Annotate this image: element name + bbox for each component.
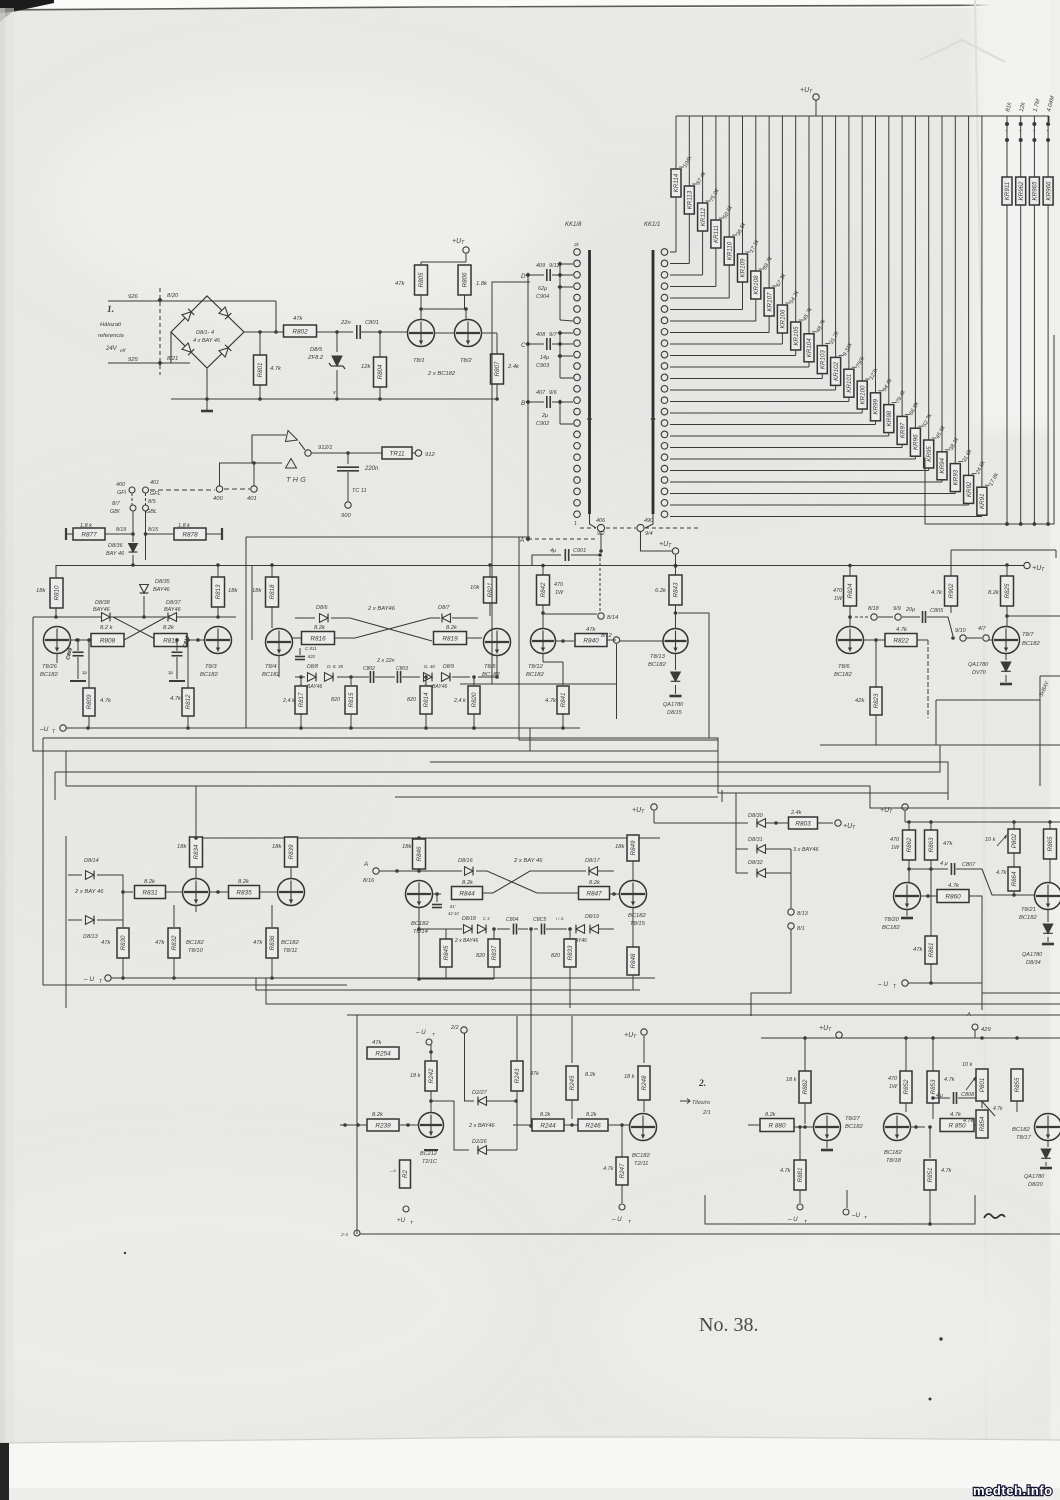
svg-text:62μ: 62μ bbox=[538, 286, 547, 292]
svg-text:4.7k: 4.7k bbox=[948, 883, 960, 889]
wire 8/20 line bbox=[108, 300, 276, 302]
wire wrap bus C bbox=[43, 738, 347, 985]
svg-text:BAY 46: BAY 46 bbox=[106, 551, 125, 557]
resistor R841 bbox=[562, 662, 564, 685]
wire R806 base rail bbox=[421, 308, 466, 310]
svg-text:8.2k: 8.2k bbox=[540, 1112, 551, 1118]
svg-text:2-3: 2-3 bbox=[340, 1232, 348, 1238]
transistor T8/11 bbox=[278, 879, 305, 906]
transistor T8/2 bbox=[455, 320, 482, 347]
svg-text:4.7k: 4.7k bbox=[545, 698, 557, 704]
wire wrap bus B bbox=[529, 728, 531, 751]
connector strip KK1/1 bar bbox=[652, 250, 655, 514]
capacitor C801 22n bbox=[356, 325, 358, 339]
svg-text:GBI: GBI bbox=[110, 509, 120, 515]
svg-text:2.: 2. bbox=[698, 1079, 706, 1089]
svg-text:– U: – U bbox=[415, 1029, 426, 1036]
svg-text:47k: 47k bbox=[586, 627, 596, 633]
svg-text:KR94: KR94 bbox=[939, 458, 946, 474]
node 401 switch side bbox=[251, 486, 257, 492]
svg-text:KR106: KR106 bbox=[780, 309, 787, 328]
resistor R863 bbox=[930, 822, 932, 831]
svg-text:R842: R842 bbox=[540, 582, 547, 597]
capacitor C811 bbox=[299, 648, 301, 655]
svg-text:9/10: 9/10 bbox=[955, 628, 967, 634]
svg-text:KR96: KR96 bbox=[913, 434, 920, 450]
wire -UT rail row2 right bbox=[908, 982, 982, 984]
resistor R808 bbox=[70, 639, 91, 641]
svg-text:4.7k: 4.7k bbox=[944, 1077, 955, 1083]
svg-text:3μ: 3μ bbox=[168, 670, 174, 675]
resistor R816 bbox=[292, 637, 301, 639]
resistor R818 18k bbox=[271, 565, 273, 578]
svg-text:T2/11: T2/11 bbox=[634, 1161, 648, 1167]
transistor T8/20 bbox=[894, 883, 921, 910]
wire B node column stub bbox=[559, 402, 561, 424]
resistor R834 18k bbox=[190, 837, 203, 867]
svg-text:47k: 47k bbox=[372, 1040, 382, 1046]
svg-text:8/1: 8/1 bbox=[797, 926, 805, 932]
svg-text:14μ: 14μ bbox=[540, 355, 549, 361]
svg-text:T8/6: T8/6 bbox=[838, 664, 850, 670]
wire 406 drop to C901 bbox=[600, 532, 602, 551]
wire wrap bus 797 bbox=[395, 796, 718, 798]
svg-text:D8/16: D8/16 bbox=[458, 858, 474, 864]
capacitor C809 bbox=[76, 638, 80, 642]
resistor R821 10k bbox=[489, 565, 491, 578]
resistor R882 18k bbox=[804, 1038, 806, 1071]
svg-text:D8/8: D8/8 bbox=[307, 664, 318, 670]
svg-text:18k: 18k bbox=[615, 844, 625, 850]
transistor T8/1 bbox=[408, 320, 435, 347]
svg-text:C903: C903 bbox=[536, 363, 550, 369]
thyristor QA1780 D8/15 bbox=[675, 654, 677, 670]
svg-text:400: 400 bbox=[213, 496, 223, 502]
resistor R245 bbox=[571, 1016, 573, 1063]
node 4/7 bbox=[966, 637, 982, 639]
svg-text:R834: R834 bbox=[193, 844, 200, 859]
node 406 9/2 bbox=[590, 514, 597, 528]
svg-text:R804: R804 bbox=[377, 364, 384, 379]
svg-text:47k: 47k bbox=[530, 1071, 539, 1077]
transistor T8/10 bbox=[183, 879, 210, 906]
svg-text:B: B bbox=[521, 400, 525, 407]
resistor R877 bbox=[65, 528, 67, 540]
svg-text:BAY46: BAY46 bbox=[164, 607, 182, 613]
svg-text:D8/36: D8/36 bbox=[108, 543, 124, 549]
svg-text:4.7k: 4.7k bbox=[896, 627, 908, 633]
svg-text:8.2k: 8.2k bbox=[314, 625, 326, 631]
resistor R248 bbox=[638, 1066, 650, 1100]
svg-text:R831: R831 bbox=[142, 889, 158, 896]
wire dashed 406-490 row bbox=[580, 527, 596, 529]
svg-text:R851: R851 bbox=[927, 1168, 934, 1183]
capacitor T8/14 side bbox=[436, 894, 438, 902]
svg-text:TC 11: TC 11 bbox=[352, 488, 367, 494]
svg-text:T H G: T H G bbox=[286, 475, 306, 484]
resistor R861 bbox=[925, 936, 937, 964]
svg-text:10k: 10k bbox=[470, 585, 480, 591]
svg-text:T8/13: T8/13 bbox=[650, 654, 666, 660]
svg-text:T8/12: T8/12 bbox=[528, 664, 544, 670]
svg-text:→x: →x bbox=[389, 1168, 397, 1173]
capacitor C805 20u bbox=[902, 616, 920, 618]
svg-text:KR93: KR93 bbox=[953, 469, 960, 485]
svg-text:8.2k: 8.2k bbox=[585, 1072, 596, 1078]
svg-text:2,4 k: 2,4 k bbox=[282, 698, 295, 704]
svg-text:D8/7: D8/7 bbox=[438, 605, 451, 611]
wire bridge output to R802 bbox=[244, 331, 284, 333]
svg-text:3μ: 3μ bbox=[82, 670, 88, 675]
svg-text:408: 408 bbox=[536, 332, 546, 338]
resistor R855 bbox=[1011, 1069, 1023, 1101]
svg-text:KR105: KR105 bbox=[793, 326, 800, 345]
node 8/13 bbox=[788, 909, 794, 915]
resistor R844 row2 bbox=[433, 893, 441, 895]
svg-text:406: 406 bbox=[596, 518, 606, 524]
svg-text:D8/9: D8/9 bbox=[443, 664, 454, 670]
svg-text:D8/20: D8/20 bbox=[1028, 1182, 1044, 1188]
svg-text:D8/6: D8/6 bbox=[316, 605, 329, 611]
node +UT reference supply bbox=[463, 247, 469, 253]
svg-text:470: 470 bbox=[833, 588, 842, 594]
svg-text:2 x BAY46: 2 x BAY46 bbox=[454, 938, 478, 944]
resistor KR113 with ladder wire bbox=[688, 116, 690, 186]
wire T8/2 collector to R807 bbox=[482, 332, 497, 334]
wire 8/21 to bridge left bbox=[171, 332, 190, 363]
resistor KR101 with ladder wire bbox=[848, 116, 850, 369]
resistor R848 bbox=[632, 907, 634, 947]
switch blade 912/1 bbox=[299, 442, 305, 450]
svg-text:D: D bbox=[521, 273, 526, 280]
resistor R806 bbox=[458, 265, 471, 295]
svg-text:926: 926 bbox=[128, 294, 138, 300]
svg-text:R808: R808 bbox=[100, 637, 116, 644]
svg-text:No. 38.: No. 38. bbox=[699, 1314, 758, 1336]
resistor KR96 with ladder wire bbox=[914, 116, 916, 428]
svg-text:4/7: 4/7 bbox=[978, 626, 987, 632]
svg-text:8.2k: 8.2k bbox=[988, 590, 1000, 596]
resistor R881 bbox=[799, 1127, 801, 1160]
svg-text:R852: R852 bbox=[903, 1079, 910, 1094]
svg-text:4 μ: 4 μ bbox=[940, 861, 948, 867]
resistor KR105 with ladder wire bbox=[795, 116, 797, 322]
svg-text:KR99: KR99 bbox=[873, 399, 880, 415]
wire T8/14 emitter to rail bbox=[418, 929, 420, 979]
wire wrap bus G right bbox=[721, 790, 723, 802]
svg-text:18k: 18k bbox=[177, 844, 187, 850]
top-left black scan corner bbox=[0, 0, 54, 13]
wire diode outputs to R831 bbox=[97, 875, 133, 892]
svg-text:2 x 22n: 2 x 22n bbox=[376, 658, 395, 664]
connector KK1/1 pin circles bbox=[661, 249, 668, 256]
svg-text:KR108: KR108 bbox=[753, 275, 760, 294]
svg-text:1W: 1W bbox=[891, 845, 900, 851]
svg-text:R837: R837 bbox=[491, 945, 498, 960]
node +UT ladder supply bbox=[813, 94, 819, 100]
wire R822 to switch node bbox=[917, 639, 928, 641]
svg-text:R846: R846 bbox=[416, 846, 423, 861]
resistor R812 bbox=[187, 640, 189, 690]
svg-text:ZF8.2: ZF8.2 bbox=[307, 355, 324, 361]
svg-text:BC182: BC182 bbox=[628, 913, 647, 919]
wire R880 to T8/27 bbox=[794, 1126, 813, 1128]
svg-text:2 x BAY46: 2 x BAY46 bbox=[367, 606, 396, 612]
svg-text:22n: 22n bbox=[340, 320, 351, 326]
svg-text:P801: P801 bbox=[979, 1078, 986, 1092]
svg-text:D8/1- 4: D8/1- 4 bbox=[196, 330, 214, 336]
node +UT D830 bbox=[651, 804, 657, 810]
svg-text:8.2k: 8.2k bbox=[462, 880, 474, 886]
node +UT bottom left bbox=[403, 1206, 409, 1212]
svg-text:42k: 42k bbox=[855, 698, 865, 704]
node 400 switch side bbox=[216, 486, 222, 492]
capacitor C807 bbox=[907, 867, 911, 871]
svg-text:8/14: 8/14 bbox=[607, 615, 618, 621]
svg-text:R809: R809 bbox=[86, 694, 93, 709]
svg-text:ı ı 4.: ı ı 4. bbox=[556, 916, 564, 921]
node 8/1 bbox=[788, 923, 794, 929]
svg-text:R812: R812 bbox=[185, 694, 192, 709]
wire wrap bus D bbox=[55, 745, 1060, 772]
svg-text:R844: R844 bbox=[459, 890, 475, 897]
svg-text:BC182: BC182 bbox=[882, 925, 901, 931]
wire T8/14 emitter chain bbox=[418, 907, 420, 929]
capacitor C904 bbox=[528, 274, 544, 276]
transistor T8/13 bbox=[663, 629, 688, 654]
svg-text:2 x BC182: 2 x BC182 bbox=[427, 371, 456, 377]
svg-text:T8/20: T8/20 bbox=[884, 917, 900, 923]
thyristor QA1780 D8/34 bbox=[1047, 909, 1049, 922]
transistor T8/27 bbox=[814, 1114, 841, 1141]
thyristor QA1780 DV70 bbox=[1005, 653, 1007, 660]
svg-text:R2: R2 bbox=[402, 1169, 409, 1177]
resistor R837 bbox=[493, 929, 495, 939]
svg-text:R862: R862 bbox=[906, 837, 913, 852]
resistor R860 bbox=[920, 895, 937, 897]
svg-text:912: 912 bbox=[425, 452, 435, 458]
wire R835 to T8/11 bbox=[260, 891, 277, 893]
svg-text:T8/4: T8/4 bbox=[265, 664, 277, 670]
svg-text:R802: R802 bbox=[292, 328, 308, 335]
svg-text:KR103: KR103 bbox=[820, 350, 827, 369]
svg-text:R825: R825 bbox=[1004, 583, 1011, 598]
svg-text:BC182: BC182 bbox=[281, 940, 300, 946]
svg-text:D8/13: D8/13 bbox=[83, 934, 99, 940]
wire D8/30-32 common left bbox=[735, 823, 737, 873]
svg-text:TR11: TR11 bbox=[389, 450, 405, 457]
wire R902 top feed bbox=[951, 549, 1056, 551]
svg-text:R254: R254 bbox=[375, 1050, 391, 1057]
svg-text:R841: R841 bbox=[560, 693, 567, 708]
svg-text:R819: R819 bbox=[442, 635, 458, 642]
svg-text:eff: eff bbox=[120, 348, 126, 354]
svg-text:R243: R243 bbox=[514, 1068, 521, 1083]
svg-text:9/6: 9/6 bbox=[549, 390, 558, 396]
handwriting squiggle bbox=[984, 1214, 1005, 1218]
resistor R847 bbox=[579, 887, 610, 900]
svg-text:KK1/8: KK1/8 bbox=[565, 222, 582, 228]
resistor R822 bbox=[885, 634, 917, 647]
wire to T8/7 bbox=[989, 639, 993, 641]
svg-text:4.7k: 4.7k bbox=[993, 1106, 1003, 1112]
transistor T8/4 bbox=[266, 629, 293, 656]
svg-text:KR104: KR104 bbox=[806, 338, 813, 357]
svg-text:–U: –U bbox=[39, 726, 49, 733]
node +UT T820 bbox=[902, 804, 908, 810]
capacitor C810 bbox=[175, 638, 179, 642]
wire D node column stubs bbox=[559, 264, 561, 320]
svg-text:KR113: KR113 bbox=[687, 190, 694, 209]
resistor R862 470 1W bbox=[908, 822, 910, 831]
svg-text:R805: R805 bbox=[418, 272, 425, 287]
resistor KR109 with ladder wire bbox=[742, 116, 744, 254]
svg-text:1.8k: 1.8k bbox=[476, 281, 488, 287]
wire D831 D832 to 8/13 column bbox=[790, 849, 792, 908]
svg-text:Hálozati: Hálozati bbox=[100, 322, 122, 328]
svg-text:R817: R817 bbox=[298, 692, 305, 707]
resistor R815 bbox=[350, 677, 352, 685]
svg-text:400: 400 bbox=[116, 482, 126, 488]
wire R242 to T2/1C and D2/26 bbox=[430, 1091, 432, 1112]
svg-text:R877: R877 bbox=[81, 531, 97, 538]
wire 8/12 column down bbox=[616, 644, 618, 719]
wire R843 node east down bbox=[678, 613, 709, 738]
resistor R839 18k bbox=[285, 837, 298, 867]
svg-text:4.7k: 4.7k bbox=[950, 1112, 962, 1118]
svg-text:D8/38: D8/38 bbox=[95, 600, 111, 606]
wire dashed GFL link bbox=[150, 489, 215, 491]
svg-text:820: 820 bbox=[407, 697, 416, 703]
wire row2 bottom links bbox=[419, 978, 494, 980]
svg-text:R848: R848 bbox=[630, 953, 637, 968]
wire lower contact with triangle bbox=[219, 462, 282, 464]
resistor R244 bbox=[532, 1119, 564, 1131]
svg-text:+U: +U bbox=[397, 1217, 406, 1224]
svg-text:KR100: KR100 bbox=[859, 385, 866, 404]
svg-text:T8/21: T8/21 bbox=[1021, 907, 1036, 913]
transistor T8/14 bbox=[406, 881, 433, 908]
svg-text:+UT: +UT bbox=[880, 807, 893, 815]
node +UT row1 middle supply bbox=[672, 548, 678, 554]
svg-text:8/12: 8/12 bbox=[601, 633, 612, 639]
svg-text:8/18: 8/18 bbox=[868, 606, 880, 612]
node -UT under R881 bbox=[797, 1204, 803, 1210]
svg-text:10 k: 10 k bbox=[985, 837, 996, 843]
svg-text:R882: R882 bbox=[802, 1079, 809, 1094]
resistor TR11 bbox=[382, 447, 412, 459]
zener diode D8/5 ZF8.2 bbox=[336, 332, 338, 352]
svg-text:R822: R822 bbox=[893, 637, 909, 644]
svg-text:BC182: BC182 bbox=[648, 662, 667, 668]
resistor KR102 with ladder wire bbox=[835, 116, 837, 357]
svg-text:D8/17: D8/17 bbox=[585, 858, 601, 864]
svg-text:4μ: 4μ bbox=[550, 548, 556, 554]
resistor R846 18k bbox=[418, 838, 420, 840]
svg-text:KR966: KR966 bbox=[1045, 181, 1052, 200]
resistor R902 bbox=[945, 576, 958, 606]
svg-text:4.7k: 4.7k bbox=[996, 870, 1007, 876]
wire mid cell emitters bbox=[278, 655, 280, 677]
svg-text:42·10: 42·10 bbox=[448, 911, 459, 916]
wire T8/10 to R835 bbox=[210, 891, 228, 893]
svg-text:C: C bbox=[521, 342, 526, 349]
svg-text:925: 925 bbox=[128, 357, 138, 363]
svg-text:R242: R242 bbox=[428, 1068, 435, 1083]
svg-text:A: A bbox=[519, 537, 524, 544]
svg-text:81': 81' bbox=[450, 904, 456, 909]
node 900 bbox=[345, 502, 351, 508]
svg-text:409: 409 bbox=[536, 263, 545, 269]
svg-text:R854: R854 bbox=[979, 1116, 986, 1131]
resistor R813 18k bbox=[217, 565, 219, 577]
svg-text:24V: 24V bbox=[105, 346, 118, 352]
node center cap junction bbox=[518, 928, 528, 930]
svg-text:9/4: 9/4 bbox=[645, 531, 653, 537]
svg-text:470: 470 bbox=[890, 837, 899, 843]
svg-text:R833: R833 bbox=[567, 945, 574, 960]
svg-text:R820: R820 bbox=[471, 692, 478, 707]
svg-text:T8/1: T8/1 bbox=[413, 358, 425, 364]
wire R860 right down bbox=[969, 896, 982, 1010]
node 912 bbox=[415, 450, 421, 456]
transistor T8/7 bbox=[993, 627, 1020, 654]
svg-text:R813: R813 bbox=[215, 584, 222, 599]
resistor R830 bbox=[122, 896, 124, 927]
resistor KR114 with ladder wire bbox=[675, 116, 677, 169]
svg-text:401: 401 bbox=[247, 496, 257, 502]
svg-text:R246: R246 bbox=[585, 1122, 601, 1129]
resistor KR911 bbox=[1006, 116, 1008, 177]
transistor T8/15 bbox=[620, 881, 647, 908]
svg-text:KR101: KR101 bbox=[846, 374, 853, 393]
svg-text:R843: R843 bbox=[673, 582, 680, 597]
svg-text:BC182: BC182 bbox=[186, 940, 205, 946]
svg-text:47k: 47k bbox=[253, 940, 263, 946]
svg-text:D8/32: D8/32 bbox=[748, 860, 763, 866]
svg-text:20μ: 20μ bbox=[905, 607, 915, 613]
node +UT bottom mid bbox=[641, 1029, 647, 1035]
svg-text:T8/11: T8/11 bbox=[283, 948, 297, 954]
svg-text:BC182: BC182 bbox=[262, 672, 281, 678]
wire wrap bus E bbox=[66, 786, 1060, 808]
svg-text:C8C5: C8C5 bbox=[533, 917, 546, 923]
node 9/9 bbox=[878, 616, 893, 618]
connector strip KK1/8 bar bbox=[588, 250, 591, 514]
wire row1 top rail bbox=[56, 565, 1024, 567]
resistor R802 bbox=[284, 325, 317, 337]
svg-text:R832: R832 bbox=[171, 935, 178, 950]
svg-text:BC182: BC182 bbox=[1019, 915, 1038, 921]
wire bridge top corner feed bbox=[275, 301, 277, 332]
svg-text:R836: R836 bbox=[269, 935, 276, 950]
wire box line right 993 bbox=[982, 992, 1060, 994]
svg-text:D8/18: D8/18 bbox=[462, 916, 476, 922]
svg-text:1,8 k: 1,8 k bbox=[178, 523, 190, 529]
svg-text:4 x BAY 46: 4 x BAY 46 bbox=[193, 338, 221, 344]
svg-text:47k: 47k bbox=[913, 947, 923, 953]
svg-text:8/5: 8/5 bbox=[148, 499, 157, 505]
svg-text:R239: R239 bbox=[375, 1122, 391, 1129]
svg-text:1.: 1. bbox=[107, 305, 114, 315]
node 490 9/4 bbox=[645, 514, 653, 528]
wire row2 top bus bbox=[196, 837, 660, 839]
svg-text:900: 900 bbox=[341, 513, 351, 519]
wire row1 mid top rail bbox=[251, 565, 253, 640]
svg-text:D2/26: D2/26 bbox=[472, 1139, 488, 1145]
resistor KR110 with ladder wire bbox=[728, 116, 730, 237]
svg-text:R863: R863 bbox=[928, 837, 935, 852]
